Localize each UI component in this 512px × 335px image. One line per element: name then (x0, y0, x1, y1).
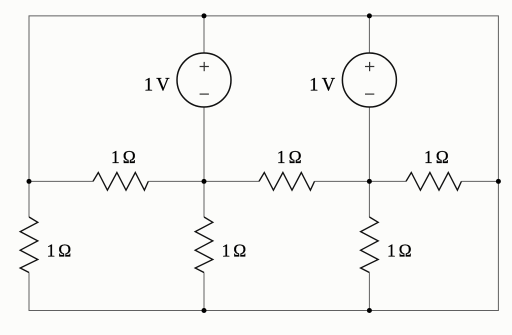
node dot top V1 (202, 13, 207, 18)
node dot top V2 (367, 13, 372, 18)
svg-text:1Ω: 1Ω (222, 240, 247, 260)
wire source V2 bottom lead (368, 107, 370, 181)
wire middle segment R3-node3 (315, 180, 407, 182)
node dot bottom B (367, 308, 372, 313)
node dot mid B (367, 179, 372, 184)
svg-text:1V: 1V (144, 75, 170, 95)
svg-text:1Ω: 1Ω (111, 147, 136, 167)
V1 minus sign (200, 93, 209, 95)
resistor R6 vertical right (1 ohm) (361, 217, 379, 273)
wire source V2 top lead (368, 16, 370, 53)
svg-text:1Ω: 1Ω (387, 240, 412, 260)
svg-text:1V: 1V (309, 75, 335, 95)
wire vertical resistor R5 top lead (203, 181, 205, 217)
wire vertical resistor R5 bottom lead (203, 273, 205, 311)
svg-text:1Ω: 1Ω (47, 240, 72, 260)
wire source V1 top lead (203, 16, 205, 53)
wire middle right segment (461, 180, 498, 182)
node dot mid A (202, 179, 207, 184)
node dot mid right (496, 179, 501, 184)
wire middle segment R1-node2 (148, 180, 259, 182)
wire vertical resistor R6 bottom lead (368, 273, 370, 311)
V2 minus sign (365, 93, 374, 95)
voltage source V1 (1 V) (177, 53, 231, 107)
wire vertical resistor R6 top lead (368, 181, 370, 217)
V1 plus sign (200, 62, 209, 71)
wire source V1 bottom lead (203, 107, 205, 181)
V2 plus sign (365, 62, 374, 71)
voltage source V2 (1 V) (342, 53, 396, 107)
node dot mid left (27, 179, 32, 184)
resistor R2 horizontal middle (1 ohm) (259, 173, 315, 191)
wire bottom rail (29, 181, 498, 310)
resistor R5 vertical middle (1 ohm) (195, 217, 213, 273)
node dot bottom A (202, 308, 207, 313)
svg-text:1Ω: 1Ω (424, 147, 449, 167)
wire left rail R4 top lead (28, 181, 30, 217)
resistor R1 horizontal left (1 ohm) (93, 173, 148, 191)
resistor R3 horizontal right (1 ohm) (406, 173, 461, 191)
resistor R4 vertical left (1 ohm) (20, 217, 38, 273)
wire top rail (29, 16, 498, 182)
wire middle left segment (29, 180, 93, 182)
svg-text:1Ω: 1Ω (277, 147, 302, 167)
